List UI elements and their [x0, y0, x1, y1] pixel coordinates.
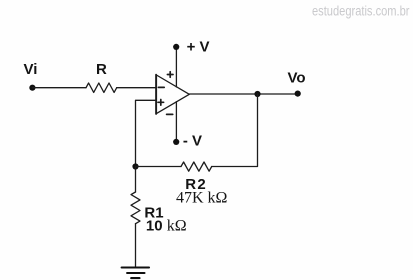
wire R2 to output junction	[212, 94, 258, 167]
op-amp left edge (bold)	[155, 75, 157, 114]
op-amp positive supply plus sign	[167, 72, 173, 78]
op-amp U1 body	[156, 75, 189, 114]
node Vo terminal	[295, 91, 301, 97]
svg-text:47K kΩ: 47K kΩ	[176, 190, 228, 207]
wire R1 to ground	[135, 224, 137, 267]
resistor R2	[181, 162, 212, 171]
svg-text:Vo: Vo	[288, 69, 306, 86]
node -V terminal	[173, 139, 179, 145]
svg-text:R: R	[96, 61, 107, 78]
node Vi terminal	[29, 85, 35, 91]
wire -V supply	[175, 102, 177, 142]
wire +V supply	[175, 47, 177, 87]
svg-text:estudegratis.com.br: estudegratis.com.br	[312, 3, 410, 18]
node output junction	[254, 91, 260, 97]
wire Vi to R	[32, 87, 86, 89]
wire noninverting input to feedback node	[136, 100, 157, 166]
wire feedback node to R1	[135, 167, 137, 193]
svg-text:- V: - V	[183, 133, 202, 150]
op-amp inverting input minus sign	[158, 86, 164, 88]
wire op-amp output to Vo	[189, 93, 297, 95]
wire feedback node to R2	[136, 166, 182, 168]
wire R to op-amp inverting input	[117, 87, 157, 89]
svg-text:Vi: Vi	[24, 61, 38, 78]
op-amp noninverting input plus sign	[158, 100, 164, 106]
svg-text:+ V: + V	[187, 39, 210, 56]
node feedback junction	[132, 163, 138, 169]
svg-text:10 kΩ: 10 kΩ	[146, 218, 187, 235]
node +V terminal	[173, 44, 179, 50]
resistor R1	[131, 192, 140, 224]
op-amp negative supply minus sign	[167, 113, 173, 115]
resistor R	[86, 83, 117, 92]
ground	[122, 268, 149, 279]
